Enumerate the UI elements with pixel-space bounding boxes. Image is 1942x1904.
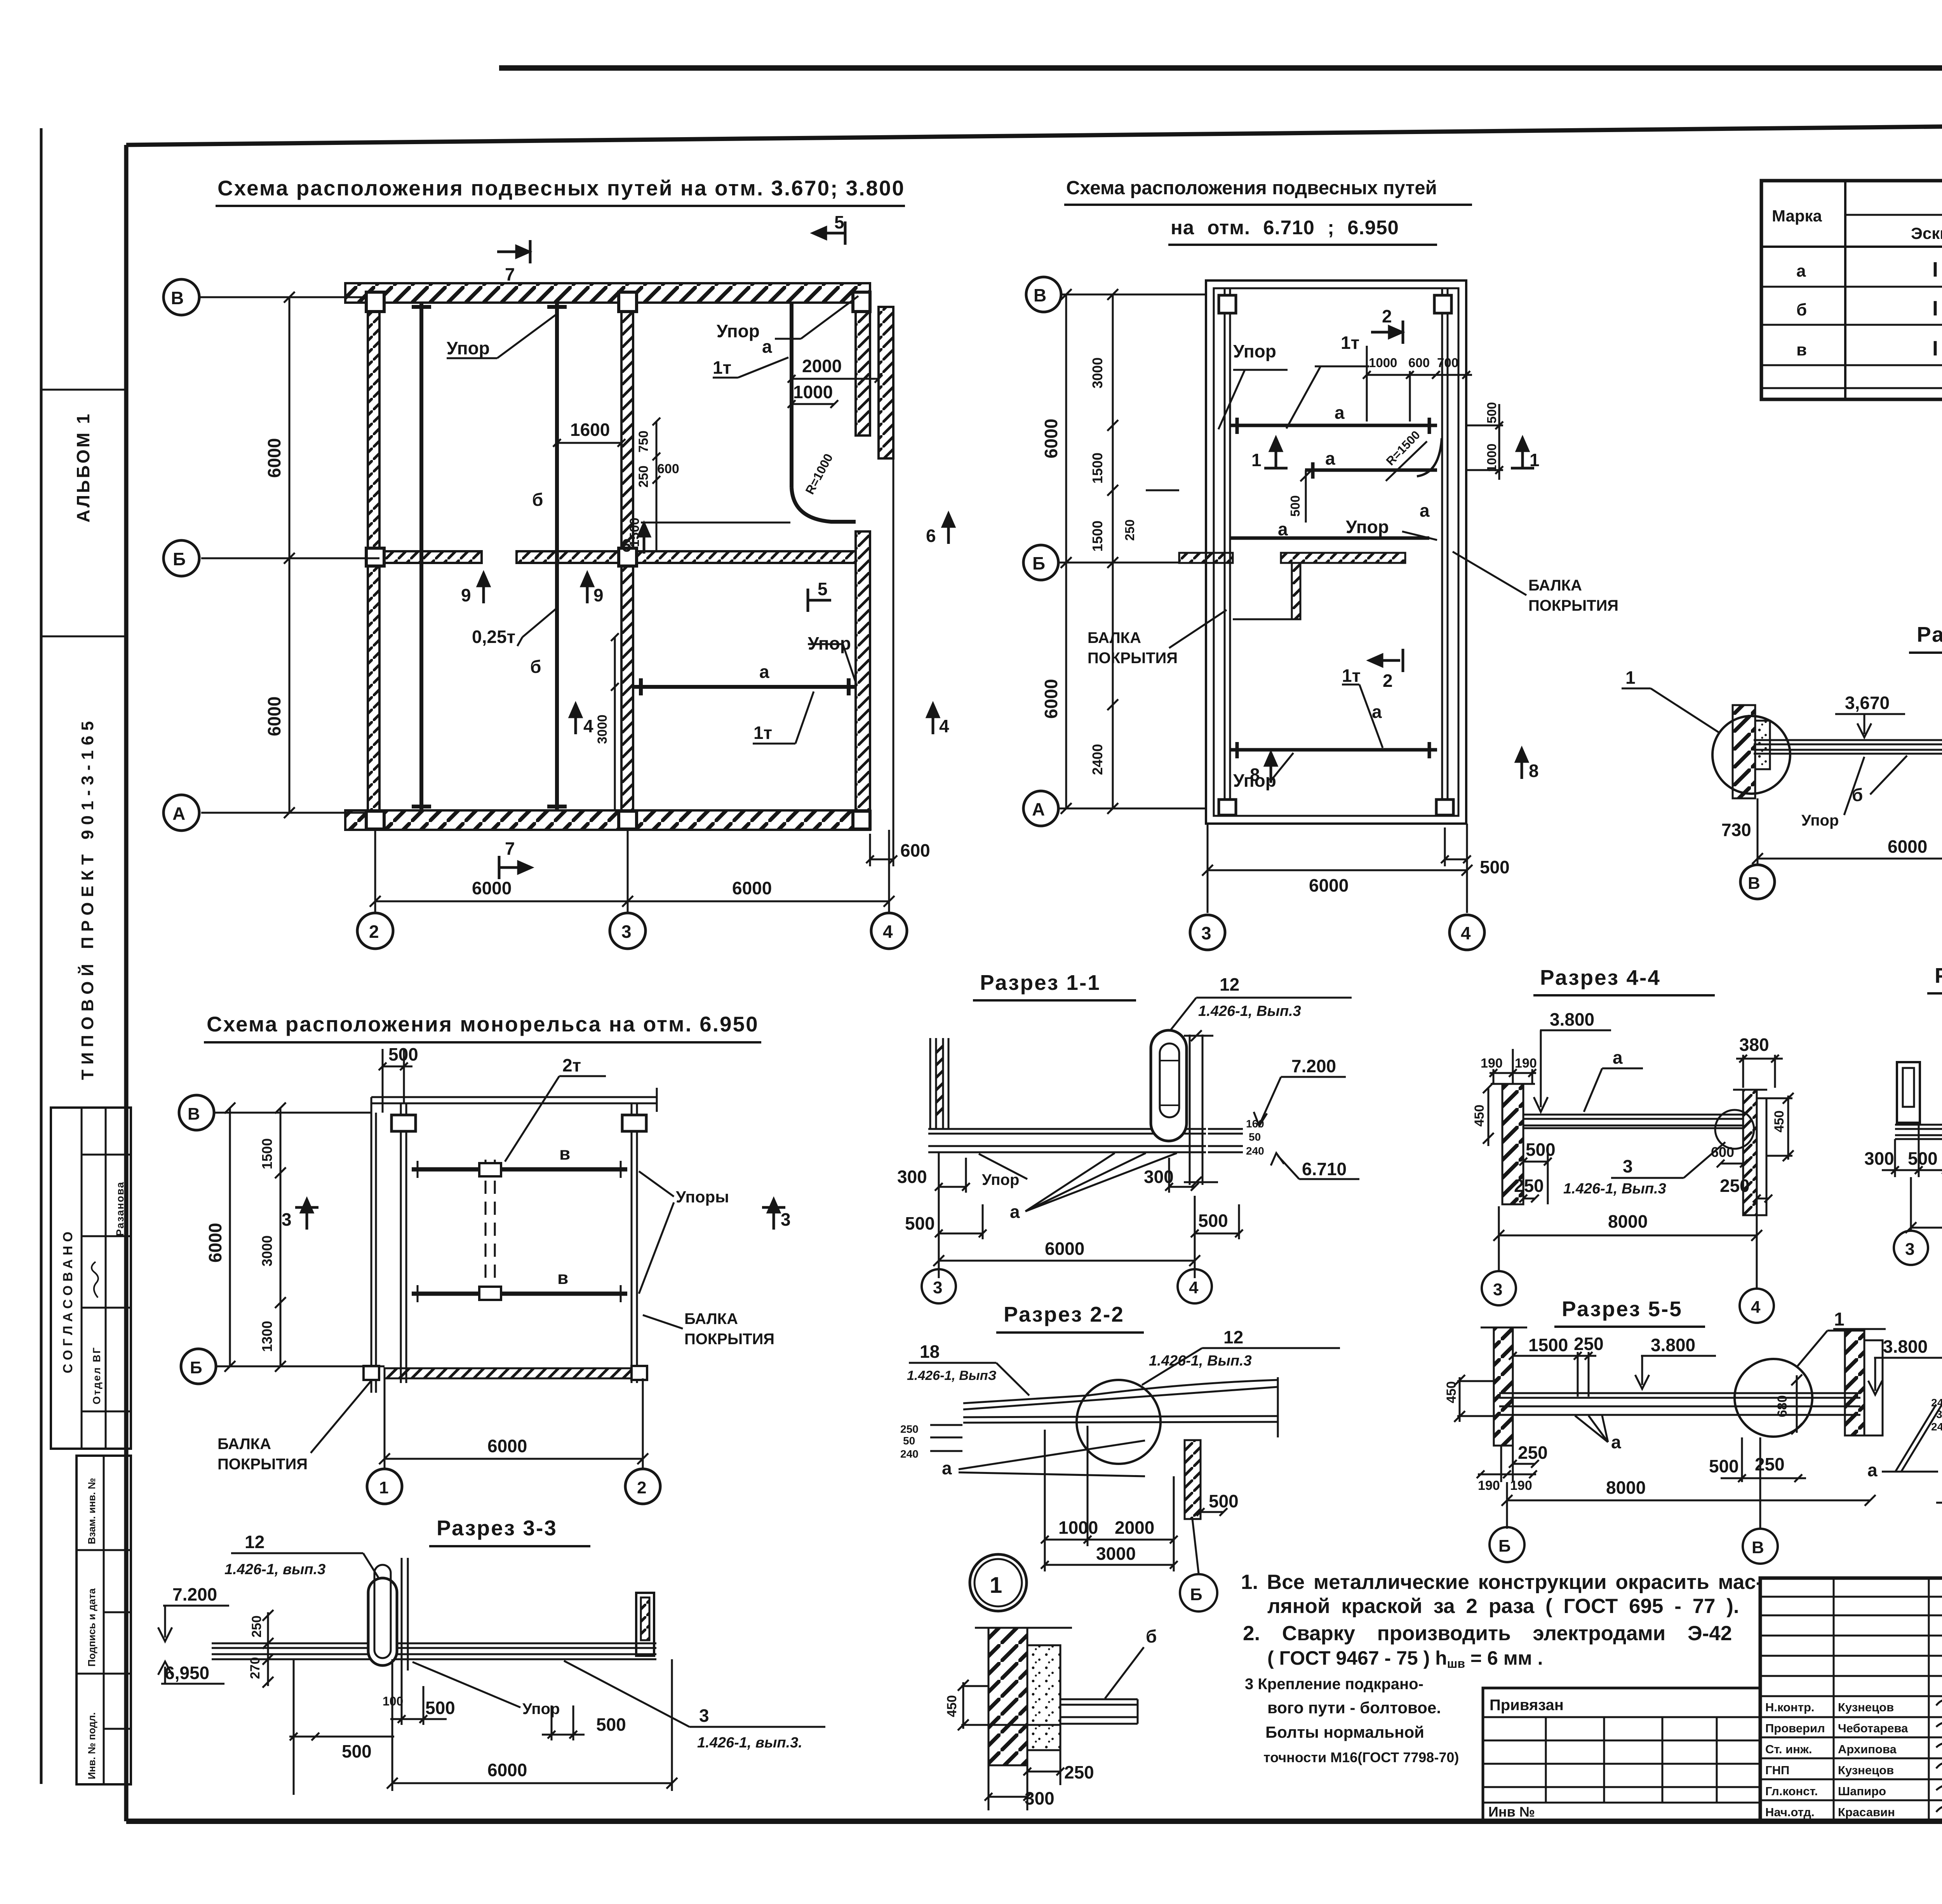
svg-text:Разрез 4-4: Разрез 4-4 bbox=[1540, 965, 1661, 989]
svg-text:1: 1 bbox=[379, 1478, 388, 1497]
svg-text:600: 600 bbox=[657, 462, 679, 476]
s55 left wall bbox=[1494, 1327, 1513, 1446]
svg-text:3000: 3000 bbox=[1096, 1543, 1136, 1564]
s11 beam bbox=[928, 1129, 1206, 1152]
svg-text:Проверил: Проверил bbox=[1765, 1721, 1825, 1735]
tblock left columns bbox=[1833, 1578, 1835, 1821]
svg-text:1: 1 bbox=[1625, 667, 1636, 688]
svg-text:7: 7 bbox=[505, 838, 515, 859]
svg-text:Упор: Упор bbox=[717, 321, 760, 341]
s11 hanger bulb bbox=[1151, 1030, 1187, 1141]
svg-text:а: а bbox=[1613, 1047, 1623, 1068]
svg-text:2: 2 bbox=[369, 922, 379, 942]
svg-text:Б: Б bbox=[1498, 1536, 1511, 1556]
svg-text:1т: 1т bbox=[713, 357, 731, 378]
svg-text:1: 1 bbox=[1251, 450, 1262, 470]
plan2 section marks 2 1 8 bbox=[1264, 321, 1534, 783]
sheet left edge line bbox=[40, 128, 43, 1784]
s88 beam bbox=[1895, 1125, 1942, 1139]
svg-text:5: 5 bbox=[818, 579, 828, 599]
svg-text:в: в bbox=[1796, 340, 1807, 359]
s66 stack dims 240 30 240 bbox=[1931, 1397, 1942, 1433]
svg-text:9: 9 bbox=[593, 585, 604, 605]
svg-text:Гл.конст.: Гл.конст. bbox=[1765, 1784, 1818, 1798]
svg-text:190: 190 bbox=[1510, 1478, 1532, 1493]
plan3 column squares bbox=[392, 1115, 646, 1131]
svg-text:ПОКРЫТИЯ: ПОКРЫТИЯ bbox=[1088, 650, 1178, 667]
tblock left rows bbox=[1760, 1596, 1942, 1598]
svg-text:6: 6 bbox=[926, 526, 936, 546]
plan2 top small dims 1000 600 700 bbox=[1363, 346, 1472, 422]
s11 bubbles 3 4 bbox=[922, 1269, 956, 1303]
plan2 outline walls bbox=[1206, 280, 1466, 824]
svg-text:I: I bbox=[1932, 258, 1938, 281]
svg-text:3000: 3000 bbox=[259, 1235, 275, 1266]
svg-text:240: 240 bbox=[1931, 1421, 1942, 1433]
svg-text:700: 700 bbox=[1437, 355, 1458, 370]
svg-text:6000: 6000 bbox=[1041, 419, 1061, 458]
svg-text:Упор: Упор bbox=[1346, 517, 1389, 537]
svg-text:Упор: Упор bbox=[447, 338, 490, 358]
s77 bottom dim 6000 6000 bbox=[1752, 780, 1942, 865]
s88 bubbles 3 4 bbox=[1894, 1231, 1928, 1265]
svg-text:2: 2 bbox=[1382, 306, 1392, 326]
s44 left wall bbox=[1502, 1084, 1523, 1204]
s44 right wall + plate bbox=[1743, 1090, 1757, 1215]
svg-text:6000: 6000 bbox=[1888, 836, 1927, 857]
s22 detail circle bbox=[1077, 1380, 1161, 1464]
svg-text:9: 9 bbox=[461, 585, 471, 605]
svg-text:6.710: 6.710 bbox=[1302, 1159, 1347, 1179]
svg-text:190: 190 bbox=[1481, 1056, 1503, 1071]
svg-text:450: 450 bbox=[1772, 1110, 1787, 1132]
svg-text:4: 4 bbox=[939, 716, 949, 736]
plan2 left outer dim 6000x2 bbox=[1061, 289, 1072, 814]
s55 bottom dim 8000 bbox=[1502, 1437, 1876, 1529]
svg-text:50: 50 bbox=[1249, 1131, 1261, 1143]
plan1 bottom dim 6000+6000 bbox=[370, 896, 894, 907]
svg-text:1т: 1т bbox=[1341, 333, 1359, 353]
top scan bar bbox=[499, 65, 1942, 71]
s22 tapered roof beam bbox=[963, 1377, 1278, 1437]
frame border bbox=[126, 120, 1942, 145]
svg-text:500: 500 bbox=[342, 1741, 372, 1761]
svg-text:а: а bbox=[1796, 261, 1806, 280]
svg-text:250: 250 bbox=[1574, 1334, 1604, 1354]
tblock signatures squiggles bbox=[1936, 1697, 1942, 1821]
svg-text:2000: 2000 bbox=[802, 356, 842, 376]
plan2 dim 500 right bbox=[1441, 827, 1471, 866]
table data rows bbox=[1796, 258, 1942, 360]
plan3 bottom dim 6000 bbox=[379, 1453, 648, 1464]
svg-text:3.800: 3.800 bbox=[1883, 1336, 1928, 1357]
plan3 bottom wall band bbox=[385, 1368, 645, 1378]
s44 beam bbox=[1523, 1115, 1743, 1128]
svg-text:3: 3 bbox=[282, 1209, 292, 1230]
svg-text:ПОКРЫТИЯ: ПОКРЫТИЯ bbox=[1528, 597, 1618, 614]
svg-text:18: 18 bbox=[920, 1341, 940, 1362]
svg-text:а: а bbox=[942, 1458, 952, 1478]
plan3 section marks 3 bbox=[295, 1200, 785, 1230]
svg-text:240: 240 bbox=[900, 1448, 919, 1460]
svg-text:Схема расположения монорельс: Схема расположения монорельса на отм. 6.… bbox=[207, 1012, 759, 1036]
plan3 left dims bbox=[224, 1103, 286, 1372]
plan3 monorails в bbox=[412, 1169, 627, 1294]
svg-text:300: 300 bbox=[1025, 1788, 1055, 1808]
svg-text:В: В bbox=[1752, 1538, 1764, 1557]
svg-text:1.426-1, ВыпЗ: 1.426-1, ВыпЗ bbox=[907, 1368, 997, 1383]
svg-text:а: а bbox=[762, 336, 772, 357]
svg-text:8000: 8000 bbox=[1608, 1211, 1648, 1232]
plan1 dims 2000 1000 bbox=[788, 375, 882, 408]
s77 grid bubbles bbox=[1740, 865, 1942, 899]
svg-text:160: 160 bbox=[1246, 1118, 1264, 1130]
plan3 trolley dashed line bbox=[486, 1160, 495, 1305]
svg-text:1000: 1000 bbox=[793, 382, 833, 402]
svg-text:6000: 6000 bbox=[264, 697, 284, 736]
svg-text:6000: 6000 bbox=[1041, 679, 1061, 719]
svg-text:250: 250 bbox=[900, 1423, 919, 1435]
svg-text:1т: 1т bbox=[1342, 665, 1361, 686]
svg-text:600: 600 bbox=[900, 840, 930, 861]
svg-text:3.800: 3.800 bbox=[1651, 1335, 1695, 1355]
svg-text:1.426-1, вып.3: 1.426-1, вып.3 bbox=[224, 1561, 325, 1578]
plan1 mid wall axis 3 bbox=[621, 303, 633, 810]
plan2 roof beams (балка покрытия) bbox=[1225, 288, 1448, 816]
svg-text:а: а bbox=[1278, 519, 1288, 539]
s77 left wall bbox=[1733, 705, 1755, 798]
svg-text:3: 3 bbox=[699, 1705, 709, 1726]
svg-text:Упор: Упор bbox=[1801, 812, 1839, 829]
svg-text:3: 3 bbox=[621, 922, 632, 942]
svg-text:8: 8 bbox=[1529, 761, 1539, 781]
s22 wall below bbox=[1185, 1440, 1201, 1519]
svg-text:250: 250 bbox=[1064, 1762, 1094, 1782]
s88 posts bbox=[1897, 1062, 1942, 1123]
s33 bottom dim 6000 bbox=[387, 1659, 677, 1791]
s77 detail circle left bbox=[1712, 716, 1790, 794]
svg-text:2400: 2400 bbox=[1089, 744, 1105, 775]
tblock left extension (Привязан) bbox=[1483, 1688, 1760, 1821]
svg-text:ГНП: ГНП bbox=[1765, 1763, 1789, 1777]
svg-text:3000: 3000 bbox=[1089, 357, 1105, 388]
svg-text:250: 250 bbox=[1514, 1176, 1544, 1196]
svg-text:6000: 6000 bbox=[1045, 1239, 1084, 1259]
svg-text:1500: 1500 bbox=[259, 1138, 275, 1169]
svg-text:4: 4 bbox=[1189, 1278, 1199, 1297]
svg-text:Ст. инж.: Ст. инж. bbox=[1765, 1742, 1812, 1756]
svg-text:250: 250 bbox=[1720, 1176, 1750, 1196]
svg-text:Разрез 7-7: Разрез 7-7 bbox=[1917, 622, 1942, 646]
plan3 bubbles bbox=[179, 1095, 660, 1504]
s44 bottom dim 8000 bbox=[1493, 1206, 1762, 1289]
svg-text:БАЛКА: БАЛКА bbox=[1088, 629, 1141, 646]
svg-text:6000: 6000 bbox=[205, 1223, 225, 1263]
svg-text:1.426-1, вып.3.: 1.426-1, вып.3. bbox=[697, 1735, 802, 1751]
svg-text:В: В bbox=[188, 1104, 200, 1124]
svg-text:Разрез 3-3: Разрез 3-3 bbox=[437, 1516, 557, 1540]
svg-text:Схема расположения подвесных: Схема расположения подвесных путей на от… bbox=[218, 176, 905, 200]
detail circle mark 1 bbox=[970, 1554, 1027, 1611]
svg-text:500: 500 bbox=[1198, 1211, 1228, 1231]
svg-text:190: 190 bbox=[1478, 1478, 1500, 1493]
svg-text:500: 500 bbox=[1908, 1148, 1938, 1169]
plan1 left wall bbox=[368, 303, 379, 810]
svg-text:Б: Б bbox=[173, 549, 186, 569]
svg-text:500: 500 bbox=[1526, 1139, 1556, 1160]
svg-text:Б: Б bbox=[1032, 553, 1045, 573]
svg-text:б: б bbox=[530, 657, 541, 677]
svg-text:270: 270 bbox=[248, 1657, 263, 1679]
svg-text:8: 8 bbox=[1250, 765, 1260, 785]
svg-text:В: В bbox=[1748, 874, 1760, 893]
svg-text:500: 500 bbox=[905, 1213, 935, 1233]
svg-text:I: I bbox=[1932, 337, 1938, 360]
svg-text:Инв. № подл.: Инв. № подл. bbox=[86, 1712, 97, 1779]
svg-text:в: в bbox=[559, 1143, 570, 1164]
svg-text:Разрез 5-5: Разрез 5-5 bbox=[1562, 1297, 1683, 1321]
svg-text:3: 3 bbox=[1623, 1156, 1633, 1176]
svg-text:а: а bbox=[1372, 702, 1382, 722]
plan3 axes bbox=[214, 1113, 643, 1469]
svg-text:в: в bbox=[557, 1268, 568, 1288]
svg-text:7: 7 bbox=[505, 264, 515, 284]
svg-text:на отм. 6.710 ; 6.950: на отм. 6.710 ; 6.950 bbox=[1171, 216, 1399, 239]
svg-text:0,25т: 0,25т bbox=[472, 627, 515, 647]
svg-text:Б: Б bbox=[1190, 1585, 1202, 1604]
plan1 grid bubbles bbox=[164, 279, 907, 949]
s55 bubbles Б В bbox=[1490, 1527, 1524, 1562]
svg-text:6000: 6000 bbox=[732, 878, 772, 898]
svg-text:1000: 1000 bbox=[1058, 1517, 1098, 1538]
svg-text:Кузнецов: Кузнецов bbox=[1838, 1763, 1894, 1777]
svg-text:Разрез 2-2: Разрез 2-2 bbox=[1004, 1302, 1124, 1326]
svg-text:Болты нормальной: Болты нормальной bbox=[1265, 1723, 1424, 1741]
svg-text:Взам. инв. №: Взам. инв. № bbox=[86, 1478, 97, 1544]
svg-text:500: 500 bbox=[1709, 1456, 1739, 1476]
svg-text:Нач.отд.: Нач.отд. bbox=[1765, 1805, 1815, 1819]
plan1 beam а bottom right bay bbox=[633, 685, 856, 689]
svg-text:( ГОСТ 9467 - 75 ) hшв = 6 м: ( ГОСТ 9467 - 75 ) hшв = 6 мм . bbox=[1267, 1647, 1543, 1671]
svg-text:БАЛКА: БАЛКА bbox=[1528, 577, 1582, 594]
svg-text:1: 1 bbox=[1834, 1309, 1845, 1330]
svg-text:Н.контр.: Н.контр. bbox=[1765, 1700, 1815, 1714]
svg-text:3,670: 3,670 bbox=[1845, 693, 1890, 713]
s77 beam bbox=[1754, 740, 1942, 754]
svg-text:250: 250 bbox=[1518, 1442, 1548, 1463]
svg-text:Инв №: Инв № bbox=[1488, 1804, 1535, 1820]
svg-text:а: а bbox=[759, 662, 769, 682]
svg-text:а: а bbox=[1010, 1202, 1020, 1222]
svg-text:Привязан: Привязан bbox=[1490, 1697, 1564, 1714]
svg-text:3: 3 bbox=[781, 1209, 791, 1230]
svg-text:1500: 1500 bbox=[1089, 521, 1105, 552]
svg-text:ТИПОВОЙ ПРОЕКТ 901-3-165: ТИПОВОЙ ПРОЕКТ 901-3-165 bbox=[77, 716, 97, 1080]
sidebar approval table bbox=[51, 1108, 131, 1449]
svg-text:750: 750 bbox=[636, 430, 651, 453]
svg-text:450: 450 bbox=[945, 1695, 959, 1717]
s33 hanger bulb bbox=[368, 1578, 397, 1665]
plan2 column squares bbox=[1219, 295, 1453, 815]
plan2 left inner dims 3000 1500 1500 250 2400 bbox=[1107, 289, 1179, 814]
svg-text:6000: 6000 bbox=[1309, 875, 1349, 895]
svg-text:Упоры: Упоры bbox=[676, 1188, 729, 1206]
svg-text:б: б bbox=[1146, 1626, 1157, 1646]
wdet wall bbox=[988, 1628, 1027, 1765]
svg-text:190: 190 bbox=[1515, 1056, 1537, 1071]
s22 left stack dims bbox=[900, 1423, 919, 1460]
svg-text:4: 4 bbox=[1751, 1298, 1761, 1317]
svg-text:12: 12 bbox=[1223, 1327, 1243, 1347]
svg-text:3.800: 3.800 bbox=[1550, 1009, 1594, 1030]
plan2 bottom dim 6000 bbox=[1202, 865, 1472, 876]
svg-text:Упор: Упор bbox=[522, 1700, 560, 1718]
svg-text:240: 240 bbox=[1246, 1145, 1264, 1157]
svg-text:ляной краской за 2 раза ( ГОСТ: ляной краской за 2 раза ( ГОСТ 695 - 77 … bbox=[1267, 1595, 1739, 1618]
svg-text:6000: 6000 bbox=[487, 1760, 527, 1780]
svg-text:500: 500 bbox=[596, 1714, 626, 1735]
s11 small dims 160 50 240 bbox=[1246, 1118, 1264, 1157]
svg-text:3: 3 bbox=[1905, 1240, 1914, 1259]
svg-text:250: 250 bbox=[1122, 519, 1137, 541]
plan3 top chord bbox=[371, 1088, 657, 1112]
svg-text:500: 500 bbox=[1480, 857, 1510, 877]
s55 beam bbox=[1499, 1393, 1860, 1415]
svg-text:б: б bbox=[1796, 300, 1807, 319]
svg-text:2: 2 bbox=[1383, 671, 1393, 691]
plan2 labels bbox=[1233, 333, 1430, 791]
svg-text:3: 3 bbox=[1493, 1280, 1502, 1299]
svg-text:5: 5 bbox=[834, 212, 844, 232]
svg-text:БАЛКА: БАЛКА bbox=[684, 1310, 738, 1327]
svg-text:а: а bbox=[1325, 448, 1335, 469]
svg-text:Кузнецов: Кузнецов bbox=[1838, 1700, 1894, 1714]
svg-text:6000: 6000 bbox=[264, 438, 284, 478]
svg-text:450: 450 bbox=[1472, 1104, 1487, 1127]
svg-text:АЛЬБОМ 1: АЛЬБОМ 1 bbox=[73, 412, 93, 523]
plan2 beams а bbox=[1230, 418, 1442, 758]
svg-text:БАЛКА: БАЛКА bbox=[218, 1435, 271, 1453]
svg-text:а: а bbox=[1420, 500, 1430, 521]
table grid bbox=[1761, 181, 1942, 399]
table header texts bbox=[1772, 191, 1942, 242]
svg-text:1600: 1600 bbox=[570, 420, 610, 440]
s11 bottom dim 6000 bbox=[933, 1255, 1200, 1266]
svg-text:вого пути - болтовое.: вого пути - болтовое. bbox=[1267, 1698, 1441, 1717]
plan1 top wall bbox=[345, 283, 893, 830]
svg-text:В: В bbox=[171, 288, 184, 308]
svg-text:7.200: 7.200 bbox=[172, 1584, 217, 1604]
svg-text:3: 3 bbox=[933, 1278, 942, 1297]
svg-text:300: 300 bbox=[1864, 1148, 1894, 1169]
svg-text:1т: 1т bbox=[753, 723, 772, 743]
s33 right post bbox=[636, 1593, 654, 1656]
s44 bubbles 3 4 bbox=[1482, 1271, 1516, 1305]
s33 beam bbox=[212, 1643, 656, 1659]
svg-text:1. Все металлические конструкц: 1. Все металлические конструкции окрасит… bbox=[1241, 1571, 1763, 1594]
svg-text:1000: 1000 bbox=[1484, 444, 1499, 472]
svg-text:Красавин: Красавин bbox=[1838, 1805, 1895, 1819]
svg-text:В: В bbox=[1034, 285, 1046, 305]
svg-text:500: 500 bbox=[1209, 1491, 1239, 1511]
svg-text:250: 250 bbox=[249, 1615, 264, 1637]
plan1 left dim 6000x2 bbox=[284, 292, 295, 818]
svg-text:600: 600 bbox=[1408, 355, 1430, 370]
svg-text:1.426-1, Вып.3: 1.426-1, Вып.3 bbox=[1198, 1003, 1301, 1019]
svg-text:А: А bbox=[1032, 799, 1045, 819]
svg-text:1300: 1300 bbox=[259, 1321, 275, 1352]
svg-text:Б: Б bbox=[190, 1358, 202, 1377]
svg-text:730: 730 bbox=[1721, 820, 1751, 840]
svg-text:Марка: Марка bbox=[1772, 207, 1822, 225]
svg-text:680: 680 bbox=[1775, 1395, 1790, 1417]
svg-text:300: 300 bbox=[897, 1167, 927, 1187]
svg-text:Разанова: Разанова bbox=[114, 1181, 126, 1236]
svg-text:Архипова: Архипова bbox=[1838, 1742, 1897, 1756]
svg-text:ПОКРЫТИЯ: ПОКРЫТИЯ bbox=[218, 1456, 308, 1473]
svg-text:1: 1 bbox=[1530, 450, 1540, 470]
svg-text:50: 50 bbox=[903, 1435, 915, 1447]
plan1 beam 1т top right bay bbox=[790, 303, 794, 488]
svg-text:500: 500 bbox=[425, 1698, 455, 1718]
svg-text:СОГЛАСОВАНО: СОГЛАСОВАНО bbox=[61, 1228, 75, 1373]
svg-text:Упор: Упор bbox=[982, 1171, 1019, 1188]
svg-text:1.426-1, Вып.3: 1.426-1, Вып.3 bbox=[1149, 1353, 1252, 1369]
s22 bubble Б bbox=[1180, 1574, 1217, 1611]
svg-text:1.426-1, Вып.3: 1.426-1, Вып.3 bbox=[1563, 1181, 1666, 1197]
svg-text:12: 12 bbox=[245, 1532, 265, 1552]
plan1 wall on axis Б bbox=[379, 551, 482, 563]
plan1 bottom wall bbox=[345, 810, 870, 830]
plan1 right wall upper bbox=[856, 303, 870, 435]
svg-text:Подпись и дата: Подпись и дата bbox=[86, 1588, 97, 1667]
svg-text:2т: 2т bbox=[562, 1055, 581, 1075]
svg-text:а: а bbox=[1867, 1460, 1878, 1480]
svg-text:6000: 6000 bbox=[487, 1436, 527, 1456]
plan3 roof beams vertical bbox=[371, 1097, 637, 1393]
svg-text:Чеботарева: Чеботарева bbox=[1838, 1721, 1908, 1735]
svg-text:8000: 8000 bbox=[1606, 1477, 1646, 1498]
plan1 section marks 7 5 9 4 6 bbox=[478, 221, 954, 879]
s88 bottom dim 6000 bbox=[1905, 1177, 1942, 1235]
plan2 wall on axis Б bbox=[1179, 553, 1405, 619]
svg-text:250: 250 bbox=[636, 465, 651, 488]
plan1 right wall lower bbox=[856, 531, 870, 810]
svg-text:точности М16(ГОСТ 7798-70): точности М16(ГОСТ 7798-70) bbox=[1263, 1749, 1459, 1765]
svg-text:2. Сварку производить электрод: 2. Сварку производить электродами Э-42 bbox=[1243, 1622, 1732, 1645]
svg-text:А: А bbox=[172, 803, 185, 824]
plan1 axis lines bbox=[199, 297, 889, 913]
plan1 monorail beams б bbox=[412, 303, 856, 810]
svg-text:6000: 6000 bbox=[472, 878, 512, 898]
tblock signature names bbox=[1765, 1700, 1908, 1819]
svg-text:12: 12 bbox=[1220, 974, 1239, 995]
svg-text:а: а bbox=[1611, 1432, 1621, 1452]
svg-text:б: б bbox=[532, 490, 543, 510]
svg-text:380: 380 bbox=[1739, 1035, 1769, 1055]
plan2 grid bubbles bbox=[1023, 277, 1484, 950]
svg-text:I: I bbox=[1932, 297, 1938, 320]
plan2 axes bbox=[1059, 294, 1467, 913]
svg-text:Разрез 1-1: Разрез 1-1 bbox=[980, 970, 1101, 995]
s44 detail circle bbox=[1715, 1110, 1754, 1149]
svg-text:Отдел ВГ: Отдел ВГ bbox=[91, 1347, 103, 1404]
svg-text:4: 4 bbox=[1461, 923, 1471, 943]
svg-text:2000: 2000 bbox=[1115, 1517, 1154, 1538]
svg-text:6: 6 bbox=[621, 535, 632, 556]
svg-text:Упор: Упор bbox=[1233, 341, 1276, 361]
sidebar bottom table bbox=[77, 1456, 131, 1784]
